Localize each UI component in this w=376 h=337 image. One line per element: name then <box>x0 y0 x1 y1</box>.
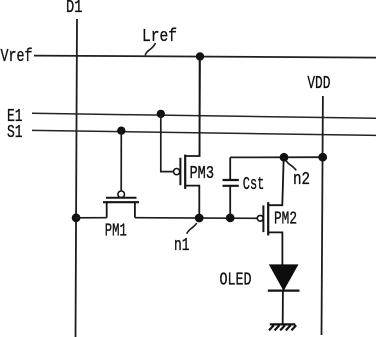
junction dot S1 x121 <box>117 127 125 135</box>
wire n2 row: Cst top to VDD <box>230 156 323 158</box>
OLED diode (filled triangle + cathode bar) <box>268 264 300 324</box>
junction dot D1/n1 <box>72 213 81 222</box>
wire D1 vertical data line <box>76 19 78 337</box>
svg-text:D1: D1 <box>66 0 83 18</box>
junction dot Vref x200 <box>196 52 204 60</box>
callout curve n1 <box>187 223 197 234</box>
svg-text:Vref: Vref <box>1 47 33 67</box>
svg-text:Cst: Cst <box>243 175 264 195</box>
junction dot VDD/n2 <box>318 153 327 162</box>
wire Vref to PM3 source vertical <box>199 56 202 156</box>
wire n1 row: D1 to PM1 source <box>76 217 107 219</box>
svg-text:S1: S1 <box>7 123 23 143</box>
callout curve n2 <box>286 161 296 171</box>
junction dot Cst bottom <box>226 214 235 223</box>
svg-text:Lref: Lref <box>142 27 177 47</box>
wire n1 row: PM1 drain to PM2 gate <box>135 217 258 220</box>
transistor PM3 (PMOS, vertical orientation) <box>174 56 200 218</box>
svg-text:n1: n1 <box>174 236 190 256</box>
wire S1 to PM1 gate <box>120 131 122 191</box>
wire VDD vertical supply line <box>322 96 323 335</box>
svg-text:PM3: PM3 <box>190 164 215 184</box>
junction dot n2 <box>280 153 289 162</box>
svg-text:n2: n2 <box>293 170 310 190</box>
ground symbol <box>269 324 296 330</box>
svg-text:OLED: OLED <box>220 270 252 290</box>
transistor PM2 (PMOS, vertical channel, gate left) <box>257 157 283 264</box>
svg-text:PM2: PM2 <box>274 210 297 230</box>
wire E1 horizontal <box>32 113 376 118</box>
junction dot E1 x161 <box>157 110 165 118</box>
wire Vref horizontal <box>34 56 376 58</box>
capacitor Cst <box>223 157 239 218</box>
callout curve Lref <box>145 43 155 55</box>
svg-text:VDD: VDD <box>307 74 330 94</box>
wire S1 horizontal <box>32 130 376 135</box>
transistor PM1 (PMOS, horizontal orientation) <box>103 191 139 218</box>
wire E1 to PM3 gate <box>161 114 174 172</box>
junction dot n1 <box>195 214 204 223</box>
svg-text:PM1: PM1 <box>105 222 127 242</box>
